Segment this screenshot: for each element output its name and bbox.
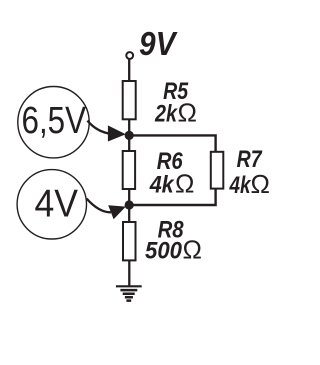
svg-text:6,5V: 6,5V [22,100,87,142]
svg-text:Ω: Ω [178,97,197,127]
svg-text:4k: 4k [229,172,252,199]
svg-text:2k: 2k [154,100,178,127]
svg-text:9V: 9V [139,25,178,62]
svg-text:4V: 4V [35,183,79,226]
svg-text:Ω: Ω [175,169,194,199]
svg-text:Ω: Ω [183,234,202,264]
svg-text:500: 500 [145,237,183,264]
svg-text:Ω: Ω [251,169,270,199]
svg-text:4k: 4k [149,172,175,199]
